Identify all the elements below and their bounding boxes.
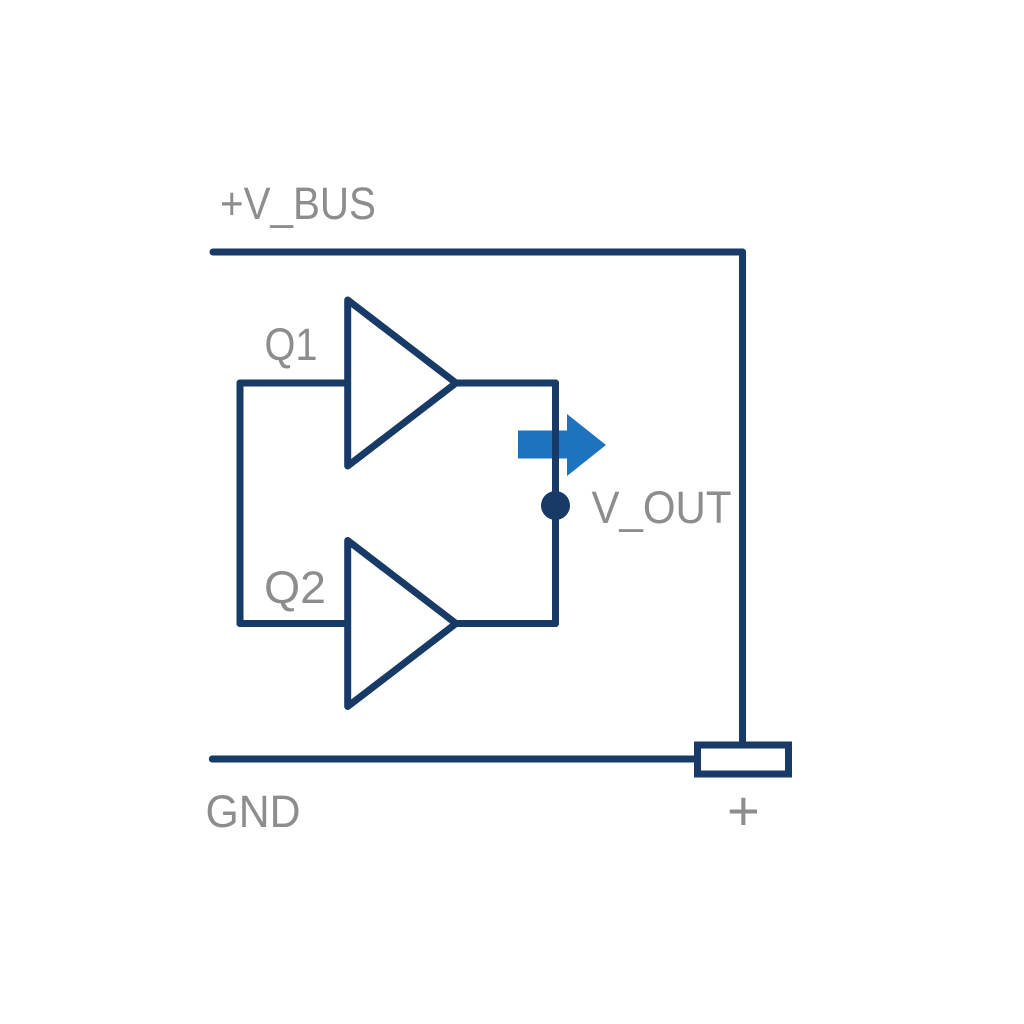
- current arrow (output direction indicator): [518, 414, 606, 476]
- junction node at V_OUT: [541, 491, 570, 520]
- transistor Q1 (buffer triangle): [348, 300, 456, 466]
- wire GND bus (bottom rail): [212, 756, 695, 763]
- wire right bus (from +V_BUS rail down to battery): [739, 252, 746, 745]
- battery B1 (supply cell body): [698, 745, 789, 774]
- wire left input rail: [237, 383, 244, 624]
- svg-text:V_OUT: V_OUT: [592, 482, 732, 533]
- svg-text:Q1: Q1: [265, 319, 318, 370]
- transistor Q2 (buffer triangle): [348, 541, 456, 707]
- wire Q2 input stub: [240, 620, 351, 627]
- wire Q2 output stub: [454, 620, 556, 627]
- wire Q1 input stub: [240, 380, 351, 387]
- wire +V_BUS top rail: [213, 249, 743, 256]
- wire Q1 output stub: [454, 380, 556, 387]
- svg-text:GND: GND: [206, 786, 301, 837]
- svg-text:+V_BUS: +V_BUS: [220, 178, 376, 229]
- svg-text:+: +: [727, 779, 760, 842]
- svg-text:Q2: Q2: [264, 562, 326, 613]
- wire output rail (crosses over current arrow): [552, 383, 559, 624]
